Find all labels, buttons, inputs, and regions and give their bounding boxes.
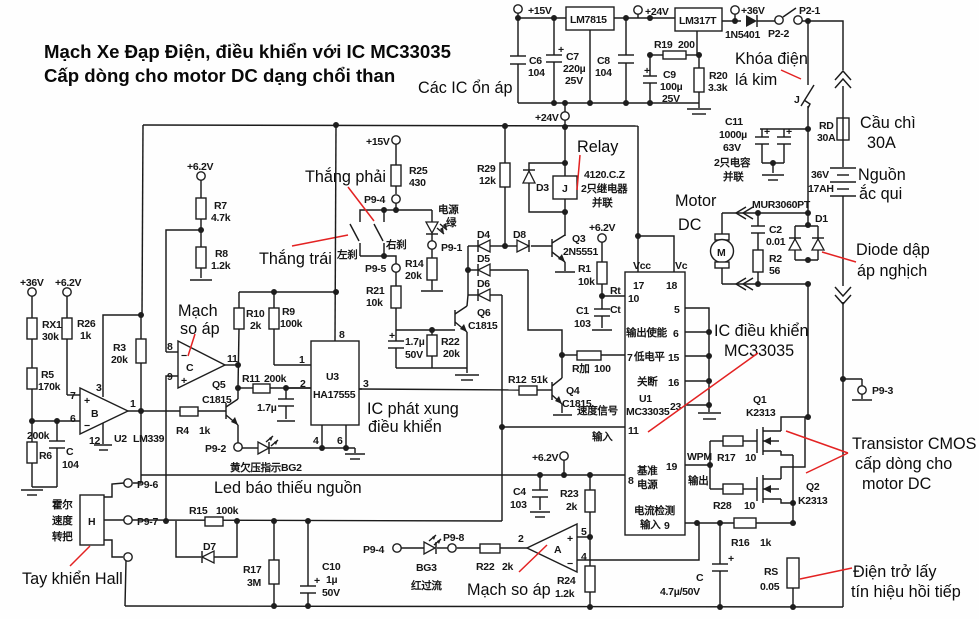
svg-text:LM7815: LM7815 — [570, 14, 607, 26]
svg-text:áp nghịch: áp nghịch — [857, 262, 927, 280]
junction — [502, 243, 508, 249]
node P9-8 terminal — [443, 532, 464, 552]
wire R7 junction to comparator ref — [166, 230, 201, 352]
wire pin7 stub — [67, 394, 80, 396]
svg-text:+6.2V: +6.2V — [589, 222, 616, 234]
junction — [235, 385, 241, 391]
svg-text:P9-8: P9-8 — [443, 532, 464, 544]
resistor R19 200 — [650, 39, 699, 59]
leader IC dieu khien — [648, 353, 758, 432]
svg-text:D7: D7 — [203, 541, 216, 553]
svg-text:C1815: C1815 — [468, 320, 498, 332]
resistor R24 1.2k — [555, 566, 595, 607]
svg-text:103: 103 — [574, 318, 591, 330]
wire pin5 stub — [577, 536, 590, 538]
svg-text:2N5551: 2N5551 — [563, 246, 598, 258]
svg-text:LM339: LM339 — [133, 433, 165, 445]
svg-text:+6.2V: +6.2V — [187, 161, 214, 173]
node +24V terminal — [634, 6, 669, 18]
svg-text:1k: 1k — [80, 330, 92, 342]
svg-text:R21: R21 — [366, 285, 385, 297]
svg-text:黄欠压指示BG2: 黄欠压指示BG2 — [230, 461, 302, 474]
wire +6.2V mid rail — [141, 474, 625, 476]
leader transistor cmos upper — [786, 431, 848, 453]
transistor Q4 C1815 — [545, 376, 592, 415]
svg-text:P9-4: P9-4 — [363, 544, 384, 556]
svg-text:R5: R5 — [41, 369, 54, 381]
junction — [271, 603, 277, 609]
svg-text:10k: 10k — [578, 276, 595, 288]
label Cau chi 30A — [860, 114, 916, 152]
svg-text:11: 11 — [628, 425, 639, 437]
svg-text:Led báo thiếu nguồn: Led báo thiếu nguồn — [214, 479, 362, 497]
junction — [138, 408, 144, 414]
svg-text:C: C — [66, 446, 74, 458]
svg-text:1: 1 — [299, 354, 305, 366]
node P9-3 terminal — [843, 379, 893, 400]
svg-text:+: + — [786, 126, 792, 138]
junction — [707, 462, 713, 468]
wire Q2 source — [781, 499, 793, 503]
wire +15V rail to LM7815 — [517, 13, 519, 18]
wire khoa dien down — [807, 129, 809, 225]
svg-text:RD: RD — [819, 120, 834, 132]
capacitor C2 0.01 — [751, 213, 786, 250]
svg-text:R12: R12 — [508, 374, 527, 386]
svg-text:+36V: +36V — [20, 277, 44, 289]
junction — [805, 210, 811, 216]
label Nguon ac qui — [858, 166, 906, 203]
capacitor C7 — [546, 18, 586, 103]
leader dien tro — [800, 568, 852, 579]
wire Q1 source — [781, 451, 793, 455]
U1 text current sense — [634, 504, 675, 531]
svg-text:motor DC: motor DC — [862, 475, 932, 493]
wire U3 pin8 Vcc from top rail — [335, 125, 336, 341]
wire BG2 to U3 pins — [269, 447, 355, 449]
svg-text:30k: 30k — [42, 331, 59, 343]
svg-text:4120.C.Z: 4120.C.Z — [584, 169, 626, 181]
wire Vcc pin17 from relay rail — [637, 126, 639, 272]
svg-text:Cầu chì: Cầu chì — [860, 114, 916, 132]
leader mach so ap bottom — [519, 545, 547, 572]
svg-text:P9-5: P9-5 — [365, 263, 386, 275]
svg-text:+36V: +36V — [741, 5, 765, 17]
connector chevrons up — [835, 71, 851, 88]
leader mach so ap — [188, 334, 195, 356]
capacitor 1.7u 50V — [388, 330, 425, 368]
svg-text:C1: C1 — [576, 305, 589, 317]
wire D5 to Q4 node — [528, 270, 562, 376]
svg-text:9: 9 — [167, 371, 173, 383]
op-amp U2C comparator — [178, 341, 225, 388]
connector chevrons motor bottom — [736, 278, 753, 290]
node +6.2V terminal left — [55, 277, 82, 296]
svg-text:4.7k: 4.7k — [211, 212, 231, 224]
led BG2 undervoltage — [242, 436, 278, 454]
node +6.2V Q3 terminal — [589, 222, 616, 242]
wire P9-6 drop — [133, 411, 141, 483]
node P9-5 terminal — [365, 263, 400, 275]
svg-text:MC33035: MC33035 — [626, 406, 670, 418]
svg-text:B: B — [91, 408, 99, 420]
junction — [599, 293, 605, 299]
svg-text:1k: 1k — [760, 537, 772, 549]
svg-text:+6.2V: +6.2V — [55, 277, 82, 289]
junction — [706, 329, 712, 335]
wire pin23 stub — [685, 404, 709, 406]
svg-text:RX1: RX1 — [42, 319, 62, 331]
svg-text:LM317T: LM317T — [679, 15, 717, 27]
junction — [551, 100, 557, 106]
svg-text:+24V: +24V — [645, 6, 669, 18]
capacitor 1.7u Q5 — [257, 388, 295, 421]
junction — [770, 160, 776, 166]
svg-text:100µ: 100µ — [660, 81, 683, 93]
svg-text:输出使能: 输出使能 — [626, 326, 668, 339]
junction — [562, 209, 568, 215]
svg-text:霍尔: 霍尔 — [52, 498, 73, 511]
svg-text:4: 4 — [313, 435, 319, 447]
regulator LM7815 — [566, 7, 614, 30]
ground R14 — [421, 290, 443, 292]
svg-text:10: 10 — [745, 452, 757, 464]
svg-text:Mạch Xe Đạp Điện, điều khiển v: Mạch Xe Đạp Điện, điều khiển với IC MC33… — [44, 41, 451, 62]
wire battery branch — [842, 86, 844, 118]
wire U3 pin3 handled in sec4 R12 — [359, 388, 362, 390]
svg-text:R10: R10 — [246, 308, 265, 320]
svg-text:20k: 20k — [405, 270, 422, 282]
leader tay khien hall — [70, 546, 90, 566]
svg-text:IC phát xung: IC phát xung — [367, 400, 459, 418]
svg-text:+: + — [84, 395, 90, 407]
svg-text:+: + — [728, 553, 734, 565]
wire Vc pin18 — [638, 236, 674, 272]
junction — [694, 520, 700, 526]
resistor R17 3M — [243, 521, 279, 606]
svg-text:Diode dập: Diode dập — [856, 241, 930, 259]
svg-text:电源: 电源 — [438, 203, 459, 216]
svg-text:C1815: C1815 — [202, 394, 232, 406]
label Dien tro lay tin hieu — [851, 563, 961, 601]
wire comparator C output — [225, 364, 238, 366]
svg-text:R29: R29 — [477, 163, 496, 175]
svg-text:R2: R2 — [769, 253, 782, 265]
svg-text:C8: C8 — [597, 55, 610, 67]
svg-text:电流检测: 电流检测 — [634, 504, 675, 517]
svg-text:C1815: C1815 — [562, 398, 592, 410]
svg-text:D3: D3 — [536, 182, 549, 194]
svg-text:R4: R4 — [176, 425, 189, 437]
svg-text:Nguồn: Nguồn — [858, 166, 906, 184]
svg-text:2: 2 — [518, 533, 524, 545]
junction — [717, 520, 723, 526]
junction — [381, 253, 387, 259]
svg-text:C10: C10 — [322, 561, 341, 573]
svg-text:16: 16 — [668, 377, 680, 389]
svg-text:1: 1 — [130, 398, 136, 410]
node P9-7 terminal — [124, 516, 159, 528]
svg-text:C11: C11 — [725, 116, 743, 128]
svg-text:0.05: 0.05 — [760, 581, 780, 593]
svg-text:6: 6 — [673, 328, 679, 340]
svg-text:51k: 51k — [531, 374, 548, 386]
junction — [537, 472, 543, 478]
svg-text:R8: R8 — [215, 248, 228, 260]
capacitor C6 — [510, 18, 545, 103]
svg-text:Vcc: Vcc — [633, 260, 651, 272]
svg-text:Rt: Rt — [610, 285, 621, 297]
resistor R16 1k — [731, 518, 772, 549]
svg-text:8: 8 — [628, 475, 634, 487]
junction — [235, 362, 241, 368]
ground left divider — [21, 490, 43, 495]
node P9-4 brake terminal — [364, 194, 400, 210]
svg-text:C: C — [696, 572, 704, 584]
resistor R2 56 — [753, 250, 782, 284]
resistor Rf 100 — [572, 351, 625, 375]
svg-text:P9-3: P9-3 — [872, 385, 893, 397]
svg-text:−: − — [84, 420, 90, 432]
wire bottom rail — [125, 606, 843, 607]
diode D7 loop — [176, 521, 237, 563]
svg-text:R17: R17 — [717, 452, 736, 464]
svg-text:MC33035: MC33035 — [724, 342, 794, 360]
svg-text:1000µ: 1000µ — [719, 129, 747, 141]
node +36V terminal — [731, 5, 765, 21]
diode pair D1 — [789, 213, 828, 260]
svg-text:+: + — [644, 65, 650, 77]
svg-text:Cấp dòng cho motor DC dạng chổ: Cấp dòng cho motor DC dạng chổi than — [44, 65, 395, 86]
wire Q6 collector — [467, 295, 468, 306]
svg-text:速度: 速度 — [52, 514, 73, 527]
junction — [805, 257, 811, 263]
junction — [790, 500, 796, 506]
wire Q5 emitter to P9-2 — [237, 425, 239, 443]
svg-text:C: C — [186, 362, 194, 374]
connector chevrons down — [835, 287, 851, 304]
node +36V terminal left — [20, 277, 44, 296]
junction — [706, 402, 712, 408]
wire hall lower to bottom rail — [125, 561, 126, 606]
svg-text:P9-7: P9-7 — [137, 516, 158, 528]
junction — [305, 518, 311, 524]
svg-text:并联: 并联 — [592, 196, 613, 209]
junction — [706, 353, 712, 359]
junction — [647, 100, 653, 106]
svg-text:170k: 170k — [38, 381, 61, 393]
capacitor C8 — [595, 18, 634, 103]
junction — [198, 227, 204, 233]
node hall lower terminal — [124, 553, 132, 561]
svg-text:200: 200 — [678, 39, 695, 51]
junction — [393, 207, 399, 213]
wire LM7815 output — [614, 17, 675, 19]
junction — [562, 124, 568, 130]
node +6.2V rail terminal — [532, 452, 568, 475]
svg-text:104: 104 — [62, 459, 79, 471]
junction — [343, 445, 349, 451]
svg-text:30A: 30A — [867, 134, 896, 152]
junction — [587, 100, 593, 106]
resistor R11 200k — [238, 373, 311, 393]
resistor R10 2k — [234, 292, 265, 388]
wire top rail — [518, 17, 566, 19]
svg-text:R22: R22 — [476, 561, 495, 573]
svg-text:并联: 并联 — [723, 170, 744, 183]
junction — [805, 281, 811, 287]
junction — [271, 518, 277, 524]
battery 36V 17AH — [808, 168, 856, 196]
wire pin19 WPM — [685, 464, 710, 466]
wire pin6 line — [32, 420, 80, 422]
svg-text:ắc qui: ắc qui — [859, 184, 902, 203]
svg-text:2只电容: 2只电容 — [714, 156, 751, 169]
node P2-1 terminal — [794, 5, 821, 24]
wire LM317T adj pin — [696, 31, 698, 55]
resistor R29 12k — [477, 126, 510, 246]
wire Q2 drain — [781, 417, 805, 479]
svg-text:Tay khiển Hall: Tay khiển Hall — [22, 570, 123, 588]
svg-text:103: 103 — [510, 499, 527, 511]
diode D5 — [468, 253, 528, 276]
svg-text:R26: R26 — [77, 318, 96, 330]
wire motor top rail — [722, 212, 808, 214]
svg-text:10k: 10k — [366, 297, 383, 309]
svg-text:M: M — [717, 247, 726, 259]
label Diode dap ap nghich — [856, 241, 930, 280]
U1 text reference — [636, 464, 658, 491]
transistor Q1 K2313 mosfet — [746, 394, 781, 455]
svg-text:63V: 63V — [723, 142, 741, 154]
node +6.2V R7 terminal — [187, 161, 214, 180]
svg-text:104: 104 — [528, 67, 545, 79]
svg-text:4: 4 — [581, 551, 587, 563]
svg-text:+6.2V: +6.2V — [532, 452, 559, 464]
svg-text:1N5401: 1N5401 — [725, 29, 760, 41]
led BG3 overcurrent — [401, 535, 448, 592]
junction — [696, 52, 702, 58]
svg-text:104: 104 — [595, 67, 612, 79]
junction — [755, 210, 761, 216]
svg-text:cấp dòng cho: cấp dòng cho — [855, 455, 952, 473]
svg-text:50V: 50V — [405, 349, 423, 361]
wire hall to P9-7 — [104, 519, 124, 521]
svg-text:BG3: BG3 — [416, 562, 437, 574]
svg-text:Transistor CMOS: Transistor CMOS — [852, 435, 977, 453]
wire R10 rail — [239, 291, 336, 293]
svg-text:2k: 2k — [502, 561, 514, 573]
svg-text:36V: 36V — [811, 169, 829, 181]
resistor R12 51k — [359, 374, 548, 395]
diode 1N5401 — [725, 15, 775, 41]
svg-text:1.7µ: 1.7µ — [257, 402, 277, 414]
svg-text:C7: C7 — [566, 51, 579, 63]
svg-text:IC điều khiển: IC điều khiển — [714, 322, 809, 340]
wire pin8 stub — [166, 351, 178, 353]
svg-text:lá kim: lá kim — [735, 71, 777, 89]
wire U3 pin1 — [274, 364, 311, 366]
svg-text:12k: 12k — [479, 175, 496, 187]
resistor R4 1k — [176, 407, 226, 437]
junction — [502, 123, 508, 129]
svg-text:2k: 2k — [566, 501, 578, 513]
svg-text:Mạch so áp: Mạch so áp — [467, 581, 551, 599]
svg-text:3: 3 — [363, 378, 369, 390]
svg-text:K2313: K2313 — [798, 495, 828, 507]
node P2-2 terminal — [768, 16, 789, 40]
resistor R7 4.7k — [196, 180, 231, 247]
wire LM317T output — [722, 20, 741, 22]
switch P2 blade — [783, 8, 796, 17]
wire fuse to battery — [842, 140, 844, 167]
junction — [587, 534, 593, 540]
svg-text:C4: C4 — [513, 486, 526, 498]
junction — [559, 352, 565, 358]
svg-text:10: 10 — [628, 293, 640, 305]
junction — [333, 122, 339, 128]
svg-text:D6: D6 — [477, 278, 490, 290]
junction — [551, 15, 557, 21]
wire pin16 stub — [685, 380, 709, 382]
svg-text:D5: D5 — [477, 253, 490, 265]
wire Q6 ground line — [396, 367, 467, 369]
svg-text:7: 7 — [627, 352, 633, 364]
svg-text:2k: 2k — [250, 320, 262, 332]
svg-text:Các IC ổn áp: Các IC ổn áp — [418, 79, 512, 97]
wire pin15 stub — [685, 355, 709, 357]
svg-text:50V: 50V — [322, 587, 340, 599]
svg-text:左刹: 左刹 — [336, 248, 357, 261]
label IC dieu khien MC33035 — [714, 322, 809, 360]
svg-text:−: − — [181, 350, 187, 362]
resistor R5 170k — [27, 368, 61, 442]
svg-text:17: 17 — [633, 280, 645, 292]
svg-text:9: 9 — [664, 520, 670, 532]
svg-text:输入: 输入 — [592, 430, 613, 443]
leader thang phai — [348, 187, 374, 221]
junction — [706, 378, 712, 384]
wire battery negative down — [842, 196, 844, 286]
svg-text:tín hiệu hồi tiếp: tín hiệu hồi tiếp — [851, 583, 961, 601]
wire +24V top rail — [143, 125, 638, 126]
label Motor DC — [675, 192, 717, 234]
svg-text:右刹: 右刹 — [385, 238, 406, 251]
svg-text:3M: 3M — [247, 577, 262, 589]
svg-text:19: 19 — [666, 461, 678, 473]
diode D4 — [468, 229, 505, 252]
svg-text:2只继电器: 2只继电器 — [581, 182, 628, 195]
svg-text:D1: D1 — [815, 213, 828, 225]
switch left brake — [336, 224, 360, 261]
svg-text:7: 7 — [70, 390, 76, 402]
wire source bus — [792, 455, 794, 523]
resistor R3 20k — [111, 315, 146, 411]
diode D8 — [505, 229, 529, 252]
wire diode bracket — [467, 246, 469, 295]
transistor Q2 K2313 mosfet — [757, 475, 828, 507]
wire op-amp B output — [128, 410, 180, 412]
wire hall bottom to lower terminal — [104, 540, 123, 557]
wire Rf node to pin7 — [562, 354, 577, 356]
svg-text:低电平: 低电平 — [633, 350, 665, 363]
junction — [429, 327, 435, 333]
junction — [717, 604, 723, 610]
svg-text:P2-1: P2-1 — [799, 5, 820, 17]
wire U3 pin4 stub — [321, 425, 323, 448]
svg-text:Q2: Q2 — [806, 481, 820, 493]
switch J khoa dien — [794, 21, 814, 129]
